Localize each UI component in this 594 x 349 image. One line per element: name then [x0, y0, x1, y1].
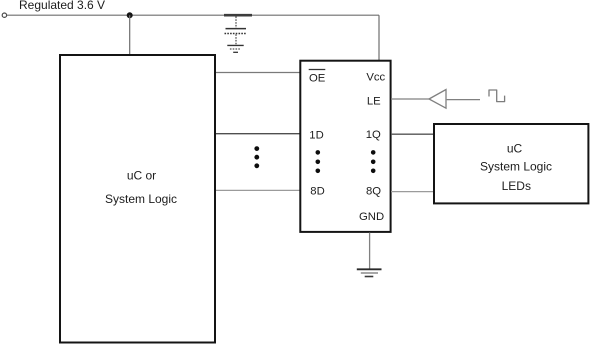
ground (U1 GND): [357, 269, 382, 276]
svg-text:Vcc: Vcc: [366, 72, 385, 84]
svg-text:System Logic: System Logic: [105, 192, 177, 206]
wire: GND pin to ground: [369, 233, 371, 269]
wire: 8Q signal: [391, 191, 434, 193]
svg-text:8D: 8D: [310, 186, 324, 198]
svg-text:uC: uC: [507, 142, 523, 156]
wire: buffer input lead: [447, 99, 480, 101]
pin label OE (with overline): [309, 70, 326, 85]
ellipsis: D column dots (inside U1): [316, 150, 321, 173]
svg-text:OE: OE: [309, 72, 326, 84]
svg-text:uC or: uC or: [127, 168, 156, 182]
wire: OE signal: [216, 72, 300, 74]
svg-text:1D: 1D: [309, 130, 323, 142]
input terminal (Regulated 3.6 V source): [2, 13, 6, 17]
buffer triangle (LE drive symbol): [429, 90, 446, 109]
svg-text:1Q: 1Q: [366, 129, 381, 141]
block: uC System Logic LEDs: [434, 124, 588, 203]
wire: rail down to Vcc pin: [378, 15, 380, 60]
svg-text:LEDs: LEDs: [502, 179, 531, 193]
ground (capacitor): [227, 45, 243, 52]
junction: rail to uC block: [127, 12, 133, 18]
wire: 8D signal: [216, 189, 300, 191]
capacitor C1 (decoupling): [224, 15, 252, 45]
latch U1 (8-bit D latch) box: [300, 61, 390, 232]
svg-text:Regulated 3.6 V: Regulated 3.6 V: [19, 0, 105, 12]
block: uC or System Logic: [60, 55, 215, 343]
ellipsis: D bus dots (between blocks): [254, 146, 259, 168]
svg-text:8Q: 8Q: [366, 186, 381, 198]
wire: LE to buffer tip: [391, 98, 429, 100]
pulse waveform symbol: [489, 90, 505, 102]
svg-text:System Logic: System Logic: [480, 160, 552, 174]
wire: 3.6 V power rail: [7, 14, 379, 16]
svg-text:LE: LE: [367, 95, 381, 107]
wire: 1Q signal: [391, 133, 434, 135]
ellipsis: Q column dots (inside U1): [371, 150, 376, 173]
wire: 1D signal: [216, 133, 300, 135]
svg-text:GND: GND: [359, 211, 384, 223]
wire: junction down to uC block: [129, 15, 131, 54]
